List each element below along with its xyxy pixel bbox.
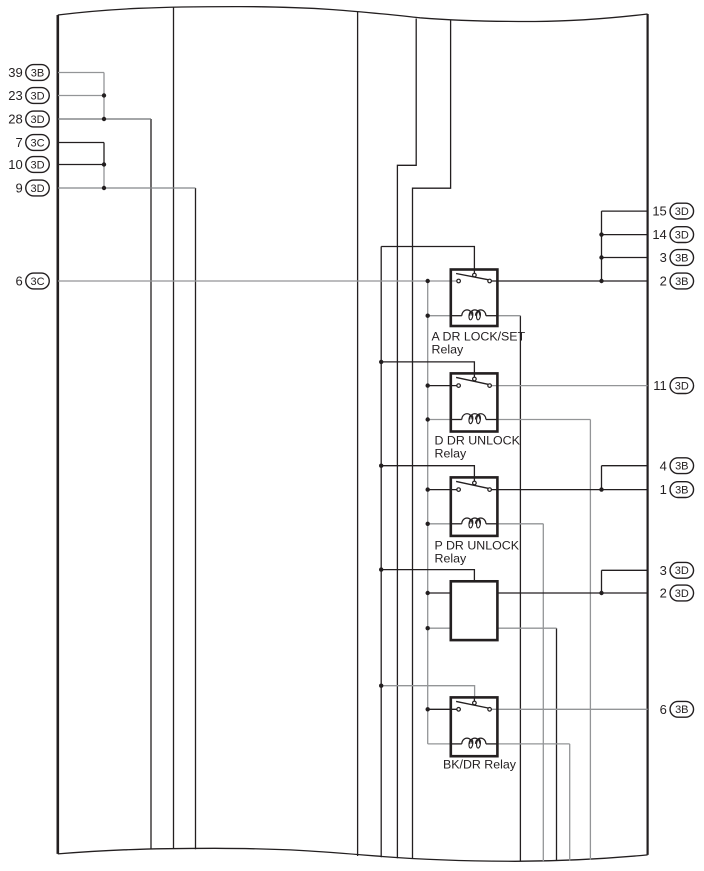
wire: junction block left border bbox=[56, 15, 59, 854]
wire: A relay coil left stub (gray) bbox=[428, 315, 452, 317]
wire: unnamed relay feed bbox=[381, 570, 474, 582]
pin label 4 (3B) right bbox=[660, 458, 694, 474]
wire: junction block right border bbox=[646, 14, 648, 855]
wire: unnamed relay coil left stub (gray) bbox=[428, 627, 451, 629]
relay: BK/DR Relay (box, switch contacts, coil) bbox=[451, 697, 498, 756]
svg-text:3D: 3D bbox=[30, 90, 44, 102]
label: A DR LOCK/SET Relay text bbox=[432, 329, 526, 356]
node: P relay feed tap bbox=[379, 464, 383, 468]
wire: unnamed relay coil right extension (gray) bbox=[497, 627, 556, 629]
node: pin 1 (3B) on right bus bbox=[599, 487, 603, 491]
node: unnamed relay feed tap bbox=[379, 567, 383, 571]
wire: unnamed relay coil output drop x=556.5 bbox=[556, 628, 558, 861]
wire: inner vertical bus x=173.5 (top to bottom) bbox=[173, 7, 175, 849]
svg-text:3D: 3D bbox=[675, 206, 689, 218]
label: P DR UNLOCK Relay text bbox=[435, 538, 520, 565]
pin label 3 (3D) right bbox=[660, 562, 694, 578]
wire: vertical bus x=151 from pin 28 wire down bbox=[150, 119, 152, 849]
svg-text:3B: 3B bbox=[675, 461, 688, 473]
svg-text:BK/DR Relay: BK/DR Relay bbox=[443, 758, 517, 772]
wire: vertical bus x=357.6 (top to bottom) bbox=[357, 12, 359, 856]
wire: BK/DR relay coil right extension (gray) bbox=[497, 743, 569, 745]
svg-text:3: 3 bbox=[660, 250, 667, 265]
relay: A DR LOCK/SET Relay (box, switch contacts, coil) bbox=[451, 270, 498, 327]
svg-text:2: 2 bbox=[660, 586, 667, 601]
node: pin 3 (3B) on right bus bbox=[599, 255, 603, 259]
svg-text:D DR UNLOCK: D DR UNLOCK bbox=[435, 433, 521, 447]
wire: right bus segment x=601.5 for pins 4/1 bbox=[601, 466, 603, 490]
svg-text:10: 10 bbox=[8, 157, 22, 172]
wire: vertical bus x=195.5 from pin 9 wire down bbox=[195, 188, 197, 849]
wire: pin 23 lead (gray) bbox=[58, 95, 104, 97]
wire: pin 3 (3B) lead bbox=[602, 257, 648, 259]
wire: right bus segment x=601.5 for pins 3/2 (3D) bbox=[601, 570, 603, 593]
svg-text:3D: 3D bbox=[675, 230, 689, 242]
svg-text:15: 15 bbox=[652, 204, 666, 219]
node: E tap at P contact bbox=[426, 487, 430, 491]
pin label 39 (3B) left bbox=[8, 65, 49, 81]
relay: unnamed relay (plain box) bbox=[451, 581, 498, 640]
wire: P DR UNLOCK relay feed bbox=[381, 466, 474, 478]
label: BK/DR Relay text bbox=[443, 758, 517, 772]
svg-text:7: 7 bbox=[15, 135, 22, 150]
svg-text:3B: 3B bbox=[675, 485, 688, 497]
wire: junction block J/B top torn-edge curve bbox=[58, 7, 648, 22]
svg-text:P DR UNLOCK: P DR UNLOCK bbox=[435, 538, 520, 552]
svg-text:9: 9 bbox=[15, 181, 22, 196]
wire: right bus segment x=601.5 for pins 15/14/3/2 bbox=[601, 211, 603, 281]
wire: A DR LOCK/SET relay coil output drop x=520.4 bbox=[519, 316, 521, 862]
svg-text:Relay: Relay bbox=[435, 447, 467, 461]
wire: pin 4 (3B) lead bbox=[602, 465, 648, 467]
wire: BK/DR relay coil output drop x=569.7 (gray) bbox=[569, 744, 571, 861]
pin label 14 (3D) right bbox=[652, 227, 693, 243]
pin label 7 (3C) left bbox=[15, 135, 49, 151]
svg-text:3C: 3C bbox=[30, 137, 44, 149]
wire: D relay coil right extension (gray) bbox=[497, 419, 590, 421]
wire: gray coil-return vertical bus x=427.7 (node E) bbox=[427, 281, 429, 744]
node: E tap at BK contact bbox=[426, 707, 430, 711]
wire: pin 10 lead bbox=[58, 164, 104, 166]
relay: P DR UNLOCK Relay (box, switch contacts, coil) bbox=[451, 477, 498, 536]
wire: junction block J/B bottom torn-edge curve bbox=[58, 848, 648, 861]
pin label 6 (3C) left bbox=[15, 273, 49, 289]
wire: BK/DR relay left contact stub from node E bbox=[428, 708, 457, 710]
wire: pin 2 (3D) lead from unnamed relay bbox=[497, 592, 647, 594]
svg-text:A DR LOCK/SET: A DR LOCK/SET bbox=[432, 329, 526, 343]
pin label 10 (3D) left bbox=[8, 157, 49, 173]
node: E tap at unnamed relay contact bbox=[426, 591, 430, 595]
svg-text:6: 6 bbox=[660, 702, 667, 717]
svg-text:1: 1 bbox=[660, 482, 667, 497]
relay: D DR UNLOCK Relay (box, switch contacts, coil) bbox=[451, 373, 498, 431]
svg-text:Relay: Relay bbox=[435, 552, 467, 566]
svg-text:3B: 3B bbox=[675, 704, 688, 716]
svg-text:39: 39 bbox=[8, 65, 22, 80]
svg-text:3B: 3B bbox=[31, 67, 44, 79]
wire: pin 2 (3B) lead from A relay right contact bbox=[491, 280, 647, 282]
node: pin 2 (3B) on right bus bbox=[599, 279, 603, 283]
wire: D DR UNLOCK relay feed bbox=[381, 362, 474, 374]
wire: BK/DR relay coil left stub (gray) bbox=[428, 743, 452, 745]
node: E tap at unnamed relay coil bbox=[426, 626, 430, 630]
wire: vertical tie x=104 pins 7-10 bbox=[103, 143, 105, 165]
svg-text:4: 4 bbox=[660, 458, 667, 473]
svg-text:3: 3 bbox=[660, 563, 667, 578]
svg-text:3C: 3C bbox=[30, 276, 44, 288]
node: E tap at D contact bbox=[426, 383, 430, 387]
wire: vertical tie x=104 pins 39-23-28 (gray) bbox=[103, 73, 105, 120]
node: E tap at pin 6 (3C) wire bbox=[426, 279, 430, 283]
svg-text:23: 23 bbox=[8, 88, 22, 103]
wire: pin 14 lead bbox=[602, 234, 648, 236]
wire: P relay coil left stub (gray) bbox=[428, 523, 452, 525]
wire: relay feed vertical bus x=381.2 (node from A relay feed corner to bottom) bbox=[380, 247, 382, 858]
svg-text:14: 14 bbox=[652, 227, 666, 242]
wire: pin 7 lead bbox=[58, 142, 104, 144]
svg-text:3D: 3D bbox=[675, 381, 689, 393]
svg-text:3B: 3B bbox=[675, 252, 688, 264]
pin label 11 (3D) right bbox=[653, 378, 693, 394]
wire: pin 9 lead (gray) bbox=[58, 187, 196, 189]
wire: D relay left contact stub from node E bbox=[428, 385, 457, 387]
wire: pin 6 (3B) lead from BK/DR relay right contact (gray) bbox=[491, 708, 647, 710]
wire: pin 28 lead (dark gray) bbox=[58, 118, 151, 120]
wire: pin 1 (3B) lead from P relay right contact bbox=[491, 489, 647, 491]
node: pins 10/9 tie bbox=[102, 186, 106, 190]
node: D relay feed tap bbox=[379, 360, 383, 364]
wire: pin 3 (3D) lead bbox=[602, 569, 648, 571]
wire: P DR UNLOCK relay coil output drop x=543.3 (gray) bbox=[542, 524, 544, 861]
svg-text:6: 6 bbox=[15, 274, 22, 289]
wire: D DR UNLOCK relay coil output drop x=590.4 (gray) bbox=[589, 420, 591, 860]
svg-text:3D: 3D bbox=[30, 159, 44, 171]
wire: vertical bus with jog 416.2 -> 397.4 bbox=[397, 19, 416, 859]
wire: unnamed relay left pin stub from node E bbox=[428, 592, 451, 594]
wire: P relay left contact stub from node E bbox=[428, 489, 457, 491]
node: E tap at P coil bbox=[426, 522, 430, 526]
wire: pin 39 lead (gray) bbox=[58, 72, 104, 74]
node: pins 7/10 tie bbox=[102, 162, 106, 166]
node: E tap at D coil bbox=[426, 417, 430, 421]
wire: vertical bus with jog 450.6 -> 412.5 bbox=[413, 21, 451, 859]
node: pin 14 on right bus bbox=[599, 232, 603, 236]
wire: D relay coil left stub (gray) bbox=[428, 419, 452, 421]
wire: pin 6 (3C) lead to A relay left contact (gray) bbox=[58, 280, 457, 282]
wire: pin 15 lead bbox=[602, 210, 648, 212]
svg-text:3D: 3D bbox=[30, 183, 44, 195]
svg-text:3D: 3D bbox=[675, 588, 689, 600]
svg-text:2: 2 bbox=[660, 274, 667, 289]
label: D DR UNLOCK Relay text bbox=[435, 433, 521, 460]
wire: pin 11 (3D) lead from D relay right contact (gray) bbox=[491, 385, 647, 387]
pin label 23 (3D) left bbox=[8, 88, 49, 104]
wire: BK/DR relay feed (gray) bbox=[381, 686, 474, 698]
svg-text:28: 28 bbox=[8, 112, 22, 127]
pin label 28 (3D) left bbox=[8, 111, 49, 127]
pin label 2 (3D) right bbox=[660, 585, 694, 601]
node: BK/DR relay feed tap bbox=[379, 684, 383, 688]
wire: A DR LOCK/SET relay feed (corner x381.2 to relay top) bbox=[381, 247, 474, 270]
svg-text:3D: 3D bbox=[675, 565, 689, 577]
node: pin 2 (3D) on right bus bbox=[599, 591, 603, 595]
node: pins 23/28 tie bbox=[102, 117, 106, 121]
pin label 9 (3D) left bbox=[15, 180, 49, 196]
wire: A relay coil right extension (gray) bbox=[497, 315, 520, 317]
pin label 3 (3B) right bbox=[660, 250, 694, 266]
wire: vertical tie x=104 pins 10-9 (gray) bbox=[103, 165, 105, 189]
svg-text:3D: 3D bbox=[30, 114, 44, 126]
svg-text:3B: 3B bbox=[675, 276, 688, 288]
pin label 6 (3B) right bbox=[660, 701, 694, 717]
node: pins 39/23 tie bbox=[102, 93, 106, 97]
svg-text:11: 11 bbox=[653, 378, 667, 393]
pin label 2 (3B) right bbox=[660, 273, 694, 289]
svg-text:Relay: Relay bbox=[432, 343, 464, 357]
pin label 1 (3B) right bbox=[660, 482, 694, 498]
wire: P relay coil right extension (gray) bbox=[497, 523, 543, 525]
node: E tap at A coil bbox=[426, 314, 430, 318]
pin label 15 (3D) right bbox=[652, 203, 693, 219]
